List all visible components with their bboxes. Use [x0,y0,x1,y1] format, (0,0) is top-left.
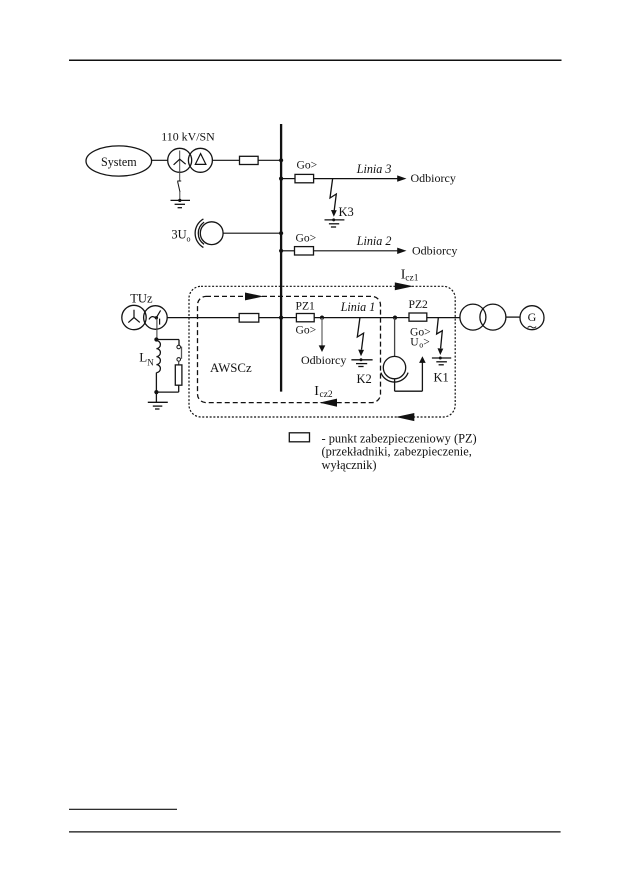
ground (fault K2) [351,358,372,366]
wire VT to Uo input [395,390,423,392]
svg-text:Linia 3: Linia 3 [356,162,392,176]
svg-text:o: o [187,235,191,244]
breaker box left of busbar (Linia 1 infeed) [239,314,259,323]
protection point PZ2 [409,313,427,321]
wire bus to PZ Linia 2 [281,250,295,252]
svg-text:(przekładniki, zabezpieczenie,: (przekładniki, zabezpieczenie, [322,445,472,459]
earthing transformer TUz (Y winding) [122,305,146,329]
AWSCz outer circulation loop (dotted) [189,286,455,417]
svg-text:G: G [528,310,537,324]
svg-text:wyłącznik): wyłącznik) [322,458,377,472]
ground (fault K3) [325,218,345,227]
protection point PZ1 [296,314,314,322]
generator G [520,306,544,330]
ground (TUz neutral circuit) [148,402,168,409]
breaker box on 110kV infeed [240,156,259,164]
node: Linia 1 tap [279,316,283,320]
voltage element 3Uo (open-delta VT winding symbol) [195,219,223,248]
arrow Icz1 direction (top of outer loop) [395,282,414,290]
generator step-up transformer (winding 2) [480,304,506,330]
label Uo> (PZ2) [410,336,430,350]
svg-text:Go>: Go> [296,324,317,337]
svg-text:>: > [423,336,430,349]
svg-text:K2: K2 [357,372,372,386]
svg-text:cz2: cz2 [320,390,333,400]
wire node to PZ2 [395,317,409,319]
svg-text:Odbiorcy: Odbiorcy [412,243,457,257]
svg-text:Linia 2: Linia 2 [356,234,392,248]
wire T1 neutral down [179,172,181,181]
svg-text:- punkt zabezpieczeniowy (PZ): - punkt zabezpieczeniowy (PZ) [322,431,477,445]
switch contact (lower terminal) [177,358,181,362]
svg-text:U: U [410,336,419,349]
arrow to Odbiorcy (Linia 1) [319,345,326,352]
protection point PZ (Linia 3) [295,174,314,182]
wire neutral node to resistor branch [156,339,179,341]
wire bottom joining branches [156,391,178,393]
wire contact to resistor RN [178,361,180,365]
wire bus to PZ Linia 3 [281,178,295,180]
wire busbar to PZ1 [281,317,296,319]
svg-text:Go>: Go> [296,232,317,245]
ground (T1 neutral) [171,199,191,208]
svg-text:Linia 1: Linia 1 [340,300,376,314]
fault K3 (earth-fault flash on Linia 3) [330,179,337,217]
svg-text:N: N [147,357,154,367]
label Icz2 (circulating current 2) [314,384,333,400]
footnote rule [69,808,177,810]
node: infeed to busbar [279,158,283,162]
voltage transformer (open-delta winding at PZ2) [381,356,408,382]
wire breaker to busbar [258,159,281,161]
wire Linia 1 [314,317,395,319]
fault K1 (earth-fault flash at PZ2) [437,318,444,355]
legend PZ symbol box [289,433,309,442]
node: Odbiorcy tap on Linia 1 [320,316,324,320]
inner circulation loop Icz2 (dashed) [198,296,381,402]
wire System to transformer T1 [152,159,168,161]
wire down to Odbiorcy (Linia 1) [321,318,323,346]
earthing transformer TUz (zigzag winding) [144,306,168,330]
transformer T1 110 kV/SN (Y winding) [168,148,192,172]
generator step-up transformer (winding 1) [460,304,486,330]
ground (fault K1) [432,357,451,365]
node: Linia 2 tap [279,249,283,253]
wire down to VT [394,318,396,356]
switch contact (upper terminal) [177,345,181,349]
label 3Uo [171,228,190,244]
arrow Uo signal up [419,356,426,363]
wire breaker to busbar [259,317,281,319]
wire Linia 3 [314,178,398,180]
svg-text:K3: K3 [339,205,354,219]
svg-text:Odbiorcy: Odbiorcy [411,171,456,185]
legend text [322,431,477,472]
wire VT bottom [394,379,396,391]
arrow Icz1 return (bottom of outer loop) [396,413,415,421]
wire node to ground [155,392,157,402]
neutral earthing switch of T1 [177,181,181,200]
svg-text:Odbiorcy: Odbiorcy [301,353,346,367]
svg-text:AWSCz: AWSCz [210,361,252,375]
fault K2 (earth-fault flash on Linia 1) [357,318,364,356]
wire Linia 2 [314,250,399,252]
switch blade [181,347,183,359]
svg-text:TUz: TUz [130,292,153,306]
node: Linia 3 tap [279,177,283,181]
node: 3Uo tap [279,231,283,235]
svg-text:PZ1: PZ1 [296,300,316,313]
wire PZ2 to generator transformer [427,317,460,319]
node: PZ2 side tap [393,316,397,320]
busbar SN [280,124,282,392]
source System (supply network ellipse) [86,146,152,176]
wire TUz neutral down [156,319,158,340]
wire 3Uo element to busbar [223,232,281,234]
svg-text:PZ2: PZ2 [409,298,429,311]
svg-text:3U: 3U [171,228,186,242]
svg-text:K1: K1 [434,371,449,385]
arrow to Odbiorcy (Linia 2) [397,248,406,254]
label Icz1 (circulating current 1) [401,268,419,284]
footer rule [69,831,561,833]
arrow to Odbiorcy (Linia 3) [397,175,406,181]
wire down to contact [178,340,180,346]
wire TUz to breaker of Linia 1 [167,317,239,319]
protection point PZ (Linia 2) [295,247,314,255]
svg-text:110 kV/SN: 110 kV/SN [161,130,215,144]
wire up to PZ2 Uo input [421,362,423,391]
arrow Icz2 direction (top of inner loop) [245,293,264,301]
resistor RN (neutral resistor) [175,365,182,385]
svg-text:System: System [101,155,137,169]
header rule [69,59,562,61]
arrow Icz2 return (bottom of inner loop) [320,399,338,407]
label LN [139,350,154,368]
wire T1 to breaker [212,159,239,161]
node: bottom of LN [154,390,158,394]
node: TUz neutral [154,337,158,341]
svg-text:Go>: Go> [297,158,318,171]
wire resistor to bottom node [178,385,180,392]
svg-text:L: L [139,350,147,365]
transformer T1 110 kV/SN (delta winding) [188,148,212,172]
wire transformer to generator G [506,316,520,318]
inductor LN (arc-suppression coil) [156,341,160,373]
svg-text:cz1: cz1 [405,274,418,284]
wire LN to neutral ground node [155,373,157,393]
